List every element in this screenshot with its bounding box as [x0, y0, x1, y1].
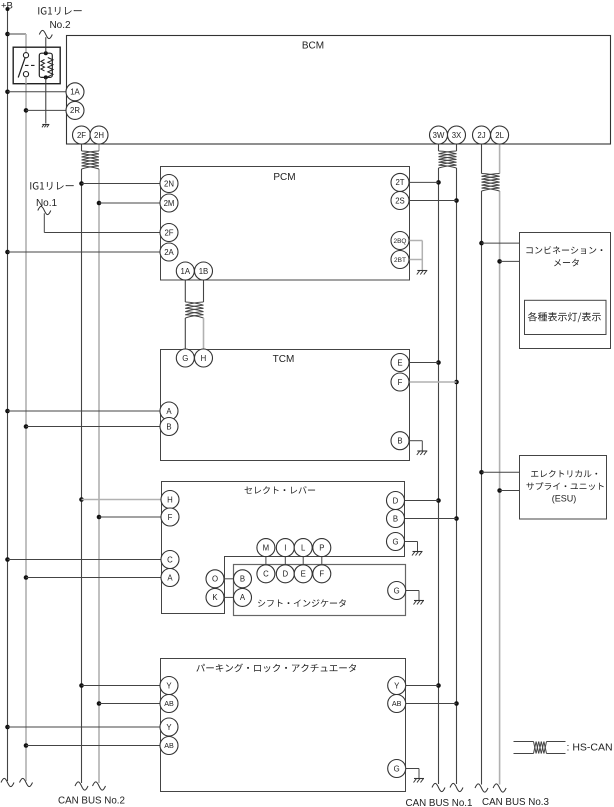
select-lever pin M — [257, 539, 275, 557]
svg-text:2S: 2S — [395, 196, 405, 205]
ground (actuator G) — [414, 778, 424, 780]
node CAN1- junction dots — [454, 198, 459, 706]
module parking-lock-actuator box — [161, 659, 406, 792]
wire IG1 relay No.1 to PCM 2F — [43, 213, 45, 232]
node coil terminals — [44, 51, 48, 55]
module TCM box — [161, 350, 410, 461]
wire TCM B to ground — [409, 440, 423, 442]
twisted pair CAN BUS No.1 (below BCM 3W/3X) — [439, 151, 457, 154]
wire CAN1- vertical — [456, 144, 458, 151]
svg-text:2A: 2A — [164, 248, 174, 257]
module combination-meter display sub-box — [525, 300, 607, 334]
ground (TCM B) — [417, 450, 427, 452]
shift-indicator pin F — [313, 565, 331, 583]
module PCM box — [161, 167, 410, 281]
wire IG1 to select-lever A — [26, 577, 161, 579]
wire IG1 to BCM 2R — [26, 109, 66, 111]
actuator pin Y (left upper) — [160, 677, 178, 695]
relay IG1 No.2 box — [13, 47, 60, 83]
svg-text:F: F — [168, 513, 173, 522]
svg-text:A: A — [166, 407, 172, 416]
svg-text:2BQ: 2BQ — [393, 238, 406, 245]
svg-text:2L: 2L — [495, 131, 504, 140]
node CAN2- junction dots — [97, 201, 102, 706]
module shift-indicator label — [258, 599, 346, 607]
wire relay switch output (gray, continues down as IG1 bus) — [25, 77, 27, 84]
actuator pin G — [388, 760, 406, 778]
wire TCM F to CAN1- (gray) — [409, 381, 456, 383]
wire CAN3+ to ESU — [482, 471, 520, 473]
shift-indicator pin E — [294, 565, 312, 583]
shift-indicator pin B — [234, 570, 252, 588]
wire CAN2- to select-lever F — [99, 516, 161, 518]
module ESU box — [520, 456, 607, 520]
svg-text:P: P — [319, 543, 324, 552]
svg-text:AB: AB — [164, 741, 174, 750]
wire CAN3- to combination meter — [500, 260, 519, 262]
svg-text:3W: 3W — [433, 131, 445, 140]
wire +B to select-lever C — [8, 559, 162, 561]
module parking-lock-actuator label — [196, 664, 356, 673]
svg-text:D: D — [393, 496, 399, 505]
actuator pin AB (left upper) — [160, 695, 178, 713]
relay IG1 No.2 label — [38, 7, 81, 15]
TCM pin H — [195, 349, 213, 367]
wire twist to TCM H (gray) — [203, 318, 205, 349]
wire CAN3+ vertical — [481, 144, 483, 174]
shift-indicator pin G — [388, 582, 406, 600]
BCM pin 2R — [66, 101, 84, 119]
wire CAN2+ vertical — [81, 144, 83, 151]
svg-text:AB: AB — [164, 699, 174, 708]
svg-text:BCM: BCM — [302, 41, 324, 52]
svg-text:PCM: PCM — [273, 172, 295, 183]
BCM pin 1A — [66, 83, 84, 101]
PCM pin 2M — [160, 194, 178, 212]
svg-text:D: D — [282, 570, 288, 579]
ground (shift-indicator G) — [414, 600, 424, 602]
PCM pin 2BQ — [391, 232, 409, 250]
shift-indicator pin D — [276, 565, 294, 583]
wire shift-indicator G to ground — [405, 590, 419, 592]
svg-text:2F: 2F — [77, 131, 86, 140]
svg-text:G: G — [394, 586, 400, 595]
svg-text:1A: 1A — [70, 88, 80, 97]
relay mechanical link (dashed) — [25, 64, 36, 66]
actuator pin AB (right) — [388, 695, 406, 713]
wire coil supply — [45, 37, 47, 53]
wire break CAN2- bottom — [93, 782, 106, 790]
PCM pin 1A — [176, 262, 194, 280]
module combination-meter label — [526, 246, 602, 254]
twisted pair CAN BUS No.3 (below BCM 2J/2L) — [482, 174, 500, 177]
relay coil — [39, 53, 52, 77]
module ESU label — [531, 470, 597, 477]
svg-text:2T: 2T — [395, 178, 404, 187]
wire break CAN1- bottom — [450, 783, 463, 791]
svg-text:C: C — [167, 555, 173, 564]
TCM pin E — [391, 354, 409, 372]
wire select-lever K to shift-indicator A — [224, 596, 234, 598]
wire PCM 2S to CAN1- — [409, 200, 456, 202]
node CAN3+ junction dots — [479, 241, 484, 475]
svg-text:L: L — [301, 543, 306, 552]
svg-text:CAN BUS No.3: CAN BUS No.3 — [482, 797, 550, 807]
svg-text:B: B — [397, 437, 402, 446]
PCM pin 1B — [195, 262, 213, 280]
wire IG1 bus (gray vertical) — [25, 84, 27, 781]
wire TCM E to CAN1+ — [409, 362, 438, 364]
svg-text:Y: Y — [166, 723, 172, 732]
svg-text:O: O — [212, 575, 218, 584]
select-lever pin P — [313, 539, 331, 557]
TCM pin B (ground) — [391, 432, 409, 450]
select-lever pin A — [161, 569, 179, 587]
PCM pin 2A — [160, 243, 178, 261]
svg-text:2F: 2F — [164, 228, 173, 237]
node CAN2+ junction dots — [79, 181, 84, 688]
BCM pin 2J — [473, 126, 491, 144]
node IG1 junction dots — [24, 108, 29, 748]
wire +B to actuator Y — [8, 726, 161, 728]
svg-text:B: B — [166, 422, 171, 431]
svg-text:TCM: TCM — [273, 354, 295, 365]
node CAN1+ junction dots — [436, 180, 441, 688]
wire actuator Y to CAN1+ — [406, 685, 439, 687]
svg-text:A: A — [167, 573, 173, 582]
select-lever pin B — [387, 510, 405, 528]
BCM pin 2H — [90, 126, 108, 144]
PCM pin 2F — [160, 224, 178, 242]
wire CAN3- to ESU — [500, 490, 520, 492]
svg-text:I: I — [284, 543, 286, 552]
svg-text:2J: 2J — [477, 131, 485, 140]
wire coil to ground — [45, 77, 47, 123]
svg-text:C: C — [263, 570, 269, 579]
BCM pin 2F — [73, 126, 91, 144]
twisted pair PCM 1A/1B to TCM G/H — [185, 302, 203, 305]
select-lever pin H — [161, 491, 179, 509]
ground (select-lever G) — [413, 551, 423, 553]
TCM pin B — [160, 418, 178, 436]
svg-text:B: B — [240, 575, 245, 584]
wire select-lever G to ground — [404, 541, 418, 543]
PCM pin 2T — [391, 173, 409, 191]
wire IG1 to actuator AB — [26, 745, 160, 747]
wire break CAN3- bottom — [493, 784, 506, 792]
select-lever pin C — [161, 551, 179, 569]
PCM pin 2N — [160, 175, 178, 193]
combination-meter display label — [528, 312, 601, 322]
wire CAN3- vertical (gray) — [499, 144, 501, 174]
wire +B to BCM 1A — [8, 91, 67, 93]
wire +B bus (far left vertical) — [7, 9, 9, 782]
select-lever pin O — [206, 570, 224, 588]
wire PCM 2T to CAN1+ — [409, 181, 438, 183]
svg-text:F: F — [319, 570, 324, 579]
relay switch contacts — [23, 53, 28, 58]
PCM pin 2BT — [391, 251, 409, 269]
svg-text:3X: 3X — [452, 131, 462, 140]
relay switch blade — [18, 58, 25, 78]
wire CAN2+ to actuator Y — [82, 685, 161, 687]
BCM pin 3W — [430, 126, 448, 144]
svg-text:H: H — [167, 495, 173, 504]
wire CAN2+ to PCM 2N — [82, 183, 161, 185]
wire +B to TCM A — [8, 410, 161, 412]
wire actuator G to ground — [405, 768, 419, 770]
wire break CAN2+ bottom — [75, 782, 88, 790]
svg-text:CAN BUS No.2: CAN BUS No.2 — [58, 796, 125, 807]
svg-text:E: E — [397, 358, 402, 367]
module BCM box — [67, 36, 611, 145]
wire break CAN1+ bottom — [432, 783, 445, 791]
select-lever pin G — [387, 533, 405, 551]
PCM pin 2S — [391, 192, 409, 210]
svg-text:AB: AB — [392, 699, 402, 708]
svg-text:CAN BUS No.1: CAN BUS No.1 — [406, 798, 473, 807]
legend HS-CAN twisted-pair symbol — [514, 741, 534, 743]
svg-text:G: G — [394, 764, 400, 773]
actuator pin Y (left lower) — [160, 718, 178, 736]
wire CAN3+ to combination meter — [482, 242, 520, 244]
select-lever pin D — [387, 492, 405, 510]
svg-text:2M: 2M — [164, 199, 175, 208]
svg-text:2BT: 2BT — [394, 257, 406, 264]
svg-text:2R: 2R — [70, 106, 80, 115]
svg-text:2N: 2N — [164, 179, 174, 188]
svg-text:No.2: No.2 — [49, 20, 71, 31]
wire IG1 to TCM B — [26, 426, 160, 428]
svg-text:1B: 1B — [199, 267, 209, 276]
select-lever pin I — [276, 539, 294, 557]
wire break (from IG1 relay No.2 coil supply) — [39, 30, 52, 38]
wire break +B bus bottom — [1, 778, 14, 786]
TCM pin F — [391, 373, 409, 391]
wire CAN1+ vertical — [438, 144, 440, 151]
wire select-lever O to shift-indicator B — [224, 578, 234, 580]
wire PCM 1B to twist — [203, 280, 205, 302]
svg-text:E: E — [301, 570, 306, 579]
module select-lever box (notched outline) — [162, 482, 405, 614]
svg-text:Y: Y — [166, 681, 172, 690]
svg-text:F: F — [398, 378, 403, 387]
BCM pin 2L — [491, 126, 509, 144]
wire +B to PCM 2A — [8, 251, 161, 253]
select-lever pin F — [161, 508, 179, 526]
svg-text:: HS-CAN: : HS-CAN — [567, 742, 613, 754]
actuator pin AB (left lower) — [160, 737, 178, 755]
select-lever pin K — [206, 588, 224, 606]
node +B junction dots — [5, 7, 10, 729]
ground (PCM 2BQ/2BT) — [417, 270, 427, 272]
wire break IG1 bus bottom — [20, 778, 33, 786]
svg-text:Y: Y — [394, 681, 400, 690]
wire actuator AB to CAN1- — [406, 703, 457, 705]
svg-text:2H: 2H — [94, 131, 104, 140]
relay IG1 No.1 label — [30, 182, 73, 190]
ground (relay coil) — [42, 124, 49, 126]
wire CAN2- to actuator AB — [99, 703, 160, 705]
shift-indicator pin A — [234, 588, 252, 606]
module shift-indicator box — [234, 565, 406, 616]
svg-text:B: B — [393, 514, 398, 523]
svg-text:(ESU): (ESU) — [552, 494, 577, 504]
svg-text:H: H — [201, 354, 207, 363]
TCM pin A — [160, 402, 178, 420]
wire PCM 1A to twist — [184, 280, 186, 302]
wire select-lever D to CAN1+ — [404, 500, 438, 502]
svg-text:M: M — [263, 543, 270, 552]
twisted pair CAN BUS No.2 (below BCM 2F/2H) — [82, 151, 100, 154]
wire break (from IG1 relay No.1) — [38, 206, 51, 214]
node CAN3- junction dots — [497, 259, 502, 493]
svg-text:G: G — [182, 354, 188, 363]
wire links select-lever M/I/L/P to shift-indicator C/D/E/F — [266, 556, 322, 565]
module select-lever label — [245, 486, 316, 494]
wire select-lever B to CAN1- — [404, 518, 456, 520]
svg-text:1A: 1A — [181, 267, 191, 276]
wire CAN2+ to select-lever H (gray) — [82, 499, 162, 501]
shift-indicator pin C — [257, 565, 275, 583]
module combination-meter box — [520, 233, 611, 349]
actuator pin Y (right) — [388, 677, 406, 695]
wire break CAN3+ bottom — [475, 784, 488, 792]
TCM pin G — [176, 349, 194, 367]
wire CAN2- vertical (gray) — [98, 144, 100, 151]
wire twist to TCM G — [184, 318, 186, 349]
svg-text:A: A — [240, 593, 246, 602]
svg-text:G: G — [392, 537, 398, 546]
wire CAN2- to PCM 2M — [99, 202, 160, 204]
wire +B to relay switch — [8, 33, 27, 35]
svg-text:+B: +B — [1, 1, 13, 12]
select-lever pin L — [294, 539, 312, 557]
wire PCM 2BQ/2BT to ground (gray) — [409, 240, 423, 242]
BCM pin 3X — [448, 126, 466, 144]
svg-text:K: K — [212, 593, 218, 602]
